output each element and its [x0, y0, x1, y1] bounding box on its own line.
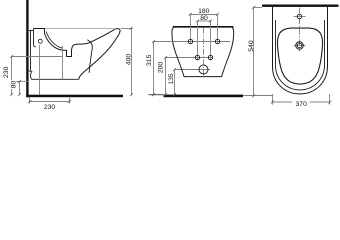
svg-text:230: 230	[44, 104, 56, 111]
svg-text:80: 80	[200, 15, 208, 22]
svg-text:400: 400	[126, 54, 133, 66]
svg-text:370: 370	[296, 101, 308, 108]
svg-text:180: 180	[198, 8, 210, 15]
svg-text:315: 315	[146, 54, 153, 66]
svg-text:80: 80	[11, 81, 18, 89]
svg-text:200: 200	[158, 62, 165, 74]
svg-text:230: 230	[3, 66, 10, 78]
svg-text:540: 540	[248, 40, 255, 52]
svg-text:135: 135	[168, 73, 175, 85]
